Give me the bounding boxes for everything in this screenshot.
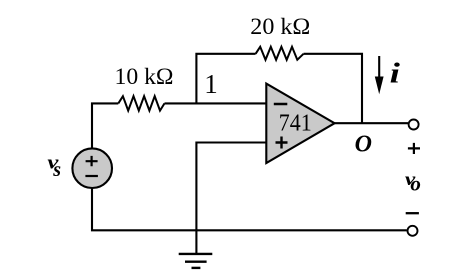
- source minus marker: [85, 175, 98, 177]
- voltage source vs circle: [72, 148, 112, 188]
- wire: op-amp output to terminal: [335, 122, 408, 124]
- wire: resistor R1 to op-amp inverting input (node 1): [165, 102, 267, 104]
- svg-text:O: O: [355, 132, 372, 158]
- ground symbol: [195, 230, 197, 254]
- op-amp U1 741 triangle: [266, 84, 334, 163]
- wire: feedback left vertical and top run to 20k: [196, 54, 255, 104]
- svg-text:1: 1: [204, 69, 218, 99]
- svg-text:o: o: [410, 172, 421, 196]
- resistor R1 10 kOhm zigzag: [118, 96, 164, 110]
- bottom terminal circle: [408, 226, 418, 236]
- wire: source top to 10k resistor: [92, 103, 118, 148]
- resistor R2 20 kOhm zigzag: [256, 47, 304, 60]
- op-amp inverting input minus marker: [274, 103, 288, 106]
- svg-text:741: 741: [279, 111, 312, 137]
- wire: noninverting input to ground junction: [196, 143, 266, 231]
- svg-text:i: i: [390, 58, 400, 89]
- svg-text:20 kΩ: 20 kΩ: [250, 14, 310, 39]
- wire: bottom rail: [92, 188, 407, 230]
- source plus marker: [86, 156, 98, 166]
- svg-text:10 kΩ: 10 kΩ: [115, 64, 174, 89]
- label plus for vo: [408, 143, 420, 154]
- op-amp noninverting input plus marker: [276, 137, 288, 149]
- svg-text:s: s: [52, 159, 61, 181]
- output terminal circle top: [409, 120, 419, 130]
- wire: feedback top right run and right vertical down to output: [304, 54, 363, 123]
- current arrow i: [378, 56, 380, 79]
- label minus for vo: [406, 212, 419, 214]
